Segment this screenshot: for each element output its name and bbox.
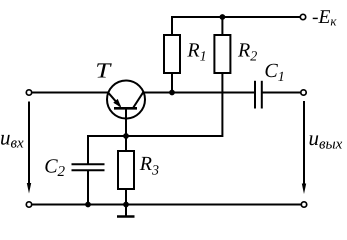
- svg-text:C2: C2: [44, 155, 65, 180]
- resistor R2: [214, 17, 230, 137]
- svg-text:R3: R3: [139, 153, 159, 179]
- svg-text:uвых: uвых: [309, 126, 343, 153]
- resistor R3: [118, 136, 134, 205]
- svg-text:uвх: uвх: [0, 126, 24, 152]
- capacitor C2: [72, 135, 105, 205]
- output terminal bottom: [301, 202, 306, 207]
- capacitor C1: [255, 81, 301, 109]
- svg-text:T: T: [95, 59, 113, 83]
- transistor T: [107, 81, 145, 137]
- resistor R1: [164, 17, 180, 93]
- wire input to emitter: [32, 92, 108, 94]
- output terminal top: [301, 90, 306, 95]
- arrow u_vyh: [302, 101, 306, 194]
- ground: [117, 205, 135, 217]
- top rail: [172, 17, 300, 35]
- junction dot R3 bottom: [123, 202, 129, 208]
- svg-text:R2: R2: [237, 40, 257, 65]
- base wire: [88, 135, 222, 137]
- wire collector to C1: [144, 92, 256, 94]
- arrow u_vh: [27, 102, 31, 194]
- svg-text:R1: R1: [186, 40, 206, 65]
- junction dot C2 bottom: [85, 202, 91, 208]
- input terminal bottom: [26, 202, 31, 207]
- terminal -Ek: [300, 14, 305, 19]
- input terminal top-left: [26, 90, 31, 95]
- svg-text:-Eк: -Eк: [312, 7, 337, 29]
- junction dot base node: [123, 133, 129, 139]
- junction dot top of R2: [220, 14, 226, 20]
- bottom rail: [32, 204, 301, 206]
- junction dot R1 bottom: [169, 90, 175, 96]
- svg-text:C1: C1: [264, 60, 284, 85]
